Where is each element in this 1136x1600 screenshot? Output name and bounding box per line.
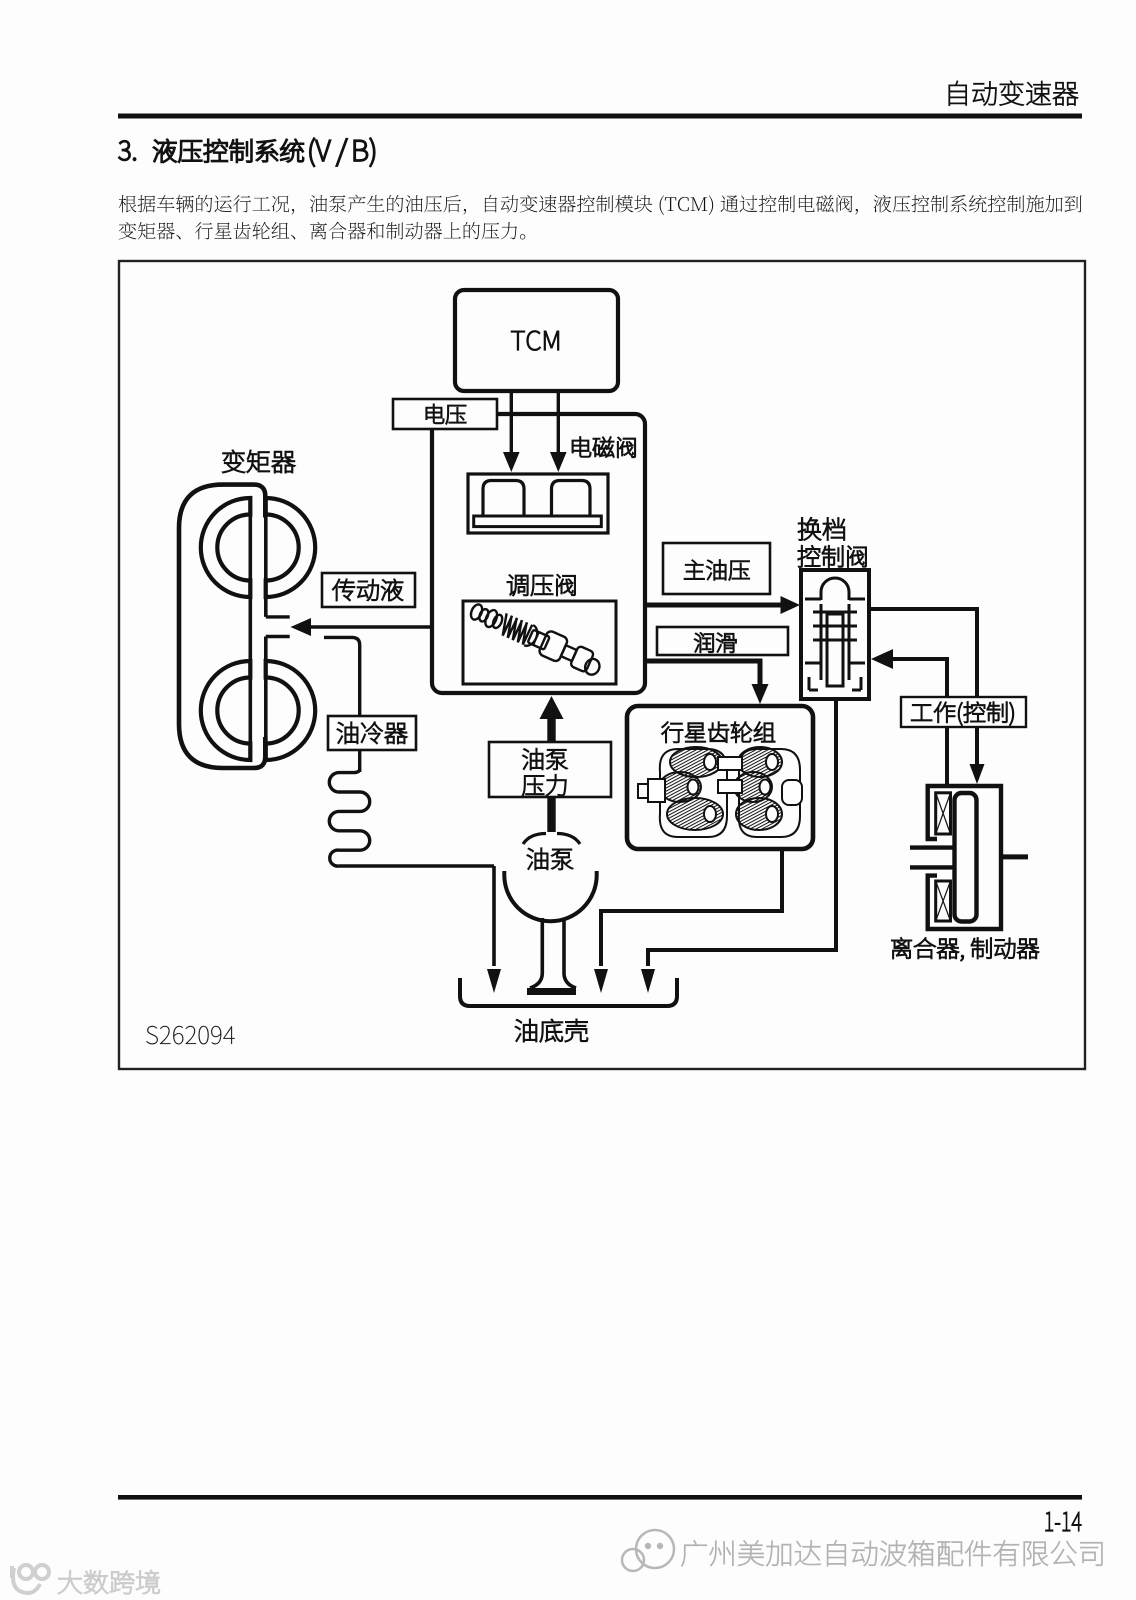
watermark 大数跨境 logo — [12, 1565, 49, 1593]
clutch piston seal X top — [936, 793, 951, 834]
label box 油泵压力 — [489, 742, 611, 797]
label 变矩器 — [223, 450, 295, 473]
label 压力 line2 — [523, 775, 567, 796]
label 行星齿轮组 — [662, 722, 775, 743]
pump funnel stem — [530, 918, 576, 988]
wire planetary to pan — [601, 849, 782, 966]
wire shift valve bottom to pan — [648, 699, 836, 966]
figure number S262094 — [146, 1026, 234, 1044]
TCM label — [511, 331, 558, 351]
arrowhead solenoid right — [550, 452, 567, 472]
label 电磁阀 — [572, 437, 635, 458]
label box 传动液 — [322, 573, 415, 607]
arrowhead into clutch — [970, 764, 985, 784]
planetary output hub — [782, 780, 802, 805]
torque converter rings — [201, 498, 315, 760]
cooler pipe stub — [324, 637, 360, 772]
TCM module box U1 — [455, 290, 618, 391]
arrowhead pan middle — [594, 969, 608, 993]
label box 主油压 — [663, 543, 770, 594]
valve body box — [432, 414, 645, 693]
label 控制阀 — [798, 546, 866, 568]
solenoid coil 2 — [552, 481, 591, 517]
header rule — [118, 114, 1082, 119]
wire fluid to torque converter — [308, 625, 431, 629]
wire TCM to solenoid left — [510, 391, 513, 455]
wire lubrication — [645, 661, 760, 692]
label box 电压 — [393, 399, 497, 429]
paragraph line 1 — [119, 195, 1082, 215]
section heading — [119, 141, 136, 161]
oil cooler coil — [329, 769, 494, 866]
label 油底壳 — [515, 1019, 587, 1042]
arrowhead main pressure — [781, 596, 801, 614]
torque converter shaft right — [264, 518, 268, 762]
clutch piston seal X bottom — [936, 881, 951, 921]
label 换档 — [798, 518, 844, 541]
label 传动液 — [333, 579, 403, 601]
arrowhead lubrication — [752, 684, 769, 704]
label 调压阀 — [507, 574, 575, 595]
arrowhead pan left — [487, 969, 501, 993]
solenoid coil 1 — [483, 481, 524, 517]
watermark 大数跨境 text — [58, 1570, 159, 1594]
label 工作(控制) — [911, 702, 1013, 726]
label 油泵 (压力) line1 — [523, 748, 568, 769]
pump funnel bowl — [504, 871, 596, 921]
inlet notches — [266, 617, 290, 637]
watermark company text — [681, 1540, 1102, 1566]
shift control valve box — [801, 570, 869, 699]
arrowhead into torque converter — [291, 618, 312, 636]
planetary center shaft bars — [718, 757, 742, 770]
page header title 自动变速器 — [949, 81, 1078, 106]
arrowhead pan right — [641, 969, 655, 993]
label 润滑 — [694, 633, 736, 653]
pump pressure arrowhead — [540, 696, 564, 719]
page number 1-14 — [1046, 1512, 1082, 1531]
label 油冷器 — [337, 722, 407, 744]
wire cooler to pan — [492, 866, 496, 966]
planetary gears drawing — [638, 747, 802, 837]
footer rule — [118, 1495, 1082, 1500]
regulator valve spool drawing — [467, 598, 605, 679]
planetary gear set box — [627, 706, 813, 849]
paragraph line 2 — [119, 222, 526, 240]
label box 润滑 — [657, 627, 788, 655]
oil pan — [460, 978, 677, 1006]
label 油泵 — [527, 848, 572, 870]
label 电压 — [426, 404, 466, 424]
wire work control to shift valve — [890, 659, 947, 786]
solenoid box — [468, 474, 608, 533]
pump funnel foot — [527, 988, 576, 995]
wire TCM to solenoid right — [557, 391, 560, 455]
label 主油压 — [684, 560, 749, 580]
label box 油冷器 — [328, 716, 416, 750]
clutch brake assembly drum — [910, 786, 1028, 929]
arrowhead into shift valve — [871, 649, 893, 669]
pump pressure arrow bar — [547, 714, 555, 832]
pressure regulator valve box — [463, 601, 616, 684]
torque converter shaft left — [249, 497, 253, 761]
watermark logo — [622, 1530, 674, 1571]
arrowhead solenoid left — [503, 452, 520, 472]
torque converter housing — [179, 485, 265, 768]
label box 工作(控制) — [901, 697, 1026, 727]
pump inlet arcs — [523, 834, 580, 845]
wire shift valve to clutch (right loop) — [869, 609, 977, 779]
diagram frame — [119, 261, 1085, 1069]
label 离合器, 制动器 — [892, 938, 1039, 961]
planetary input shaft stub — [648, 779, 665, 802]
solenoid base plate — [474, 516, 602, 527]
shift valve internals — [805, 578, 865, 690]
wire main pressure to shift valve — [645, 603, 786, 608]
